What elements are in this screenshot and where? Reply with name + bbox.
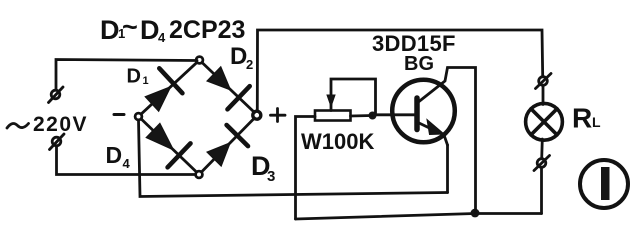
svg-text:BG: BG <box>404 53 434 75</box>
wire top-left from AC terminal to bridge top <box>56 60 197 91</box>
label ~220V <box>7 113 88 136</box>
svg-text:D: D <box>100 15 120 45</box>
wire from minus node down to emitter rail <box>139 120 448 197</box>
node bridge right (plus) <box>253 111 261 119</box>
terminal AC top <box>49 87 64 103</box>
svg-text:1: 1 <box>143 75 149 87</box>
diode D1 (left node to top node) <box>141 62 197 114</box>
wire emitter down <box>446 145 449 193</box>
svg-text:D: D <box>106 142 123 168</box>
transistor BG circle <box>392 80 455 143</box>
transistor base bar <box>414 98 420 130</box>
svg-text:220V: 220V <box>33 113 88 136</box>
wire lamp top terminal to lamp <box>542 86 545 105</box>
transistor emitter with arrow <box>419 120 448 146</box>
wire collector loop <box>419 68 476 214</box>
svg-text:R: R <box>572 103 592 134</box>
label D3 <box>251 151 275 185</box>
svg-text:4: 4 <box>123 156 131 171</box>
label W100K <box>301 129 374 154</box>
wire from plus node up to top rail and across to lamp <box>257 30 542 111</box>
label D1~D4 2CP23 <box>100 12 245 45</box>
node bridge bottom <box>196 171 203 178</box>
node bridge left (minus) <box>135 113 142 120</box>
terminal AC bottom <box>50 134 65 150</box>
node bridge top <box>196 57 203 64</box>
label D1 <box>127 66 149 88</box>
label BG <box>404 53 434 75</box>
terminal lamp bottom <box>534 156 550 171</box>
lamp RL <box>526 103 563 140</box>
label RL <box>572 103 601 134</box>
label plus <box>271 109 286 122</box>
wire bottom-left from AC terminal to bridge bottom node <box>57 146 196 175</box>
svg-text:~: ~ <box>122 12 138 42</box>
junction base-pot <box>369 112 377 120</box>
svg-text:4: 4 <box>158 30 166 45</box>
wire lamp to bottom terminal <box>540 139 543 159</box>
label 3DD15F <box>372 31 456 56</box>
wire base <box>372 113 417 116</box>
diode D3 (bottom node to right node) <box>202 118 255 172</box>
label minus <box>114 113 124 116</box>
potentiometer W100K body <box>315 111 351 121</box>
pot wiper with arrow <box>327 79 376 113</box>
svg-text:3: 3 <box>267 168 275 185</box>
svg-text:W100K: W100K <box>301 129 374 154</box>
bottom rail <box>296 214 542 220</box>
diode D2 (top node to right node) <box>202 63 255 113</box>
svg-text:D: D <box>140 15 160 45</box>
svg-text:2: 2 <box>246 57 253 72</box>
terminal lamp top <box>536 74 552 89</box>
diode D4 (left node to bottom node) <box>141 119 197 172</box>
label D2 <box>230 43 253 72</box>
label D4 <box>106 142 131 171</box>
pot right wire <box>351 114 373 117</box>
pot left wire down to rail <box>296 117 316 220</box>
svg-text:D: D <box>127 66 141 88</box>
figure marker circled 1 <box>580 160 628 208</box>
svg-text:2CP23: 2CP23 <box>169 16 245 44</box>
svg-text:L: L <box>592 114 601 130</box>
junction collector-rail <box>471 209 480 218</box>
wire lamp bottom to rail <box>540 168 543 214</box>
svg-text:D: D <box>230 43 247 70</box>
